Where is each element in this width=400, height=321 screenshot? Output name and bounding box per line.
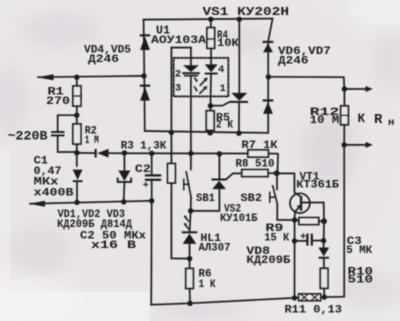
resistor R1 (73, 86, 81, 106)
wire: C1 branch left/down (58, 115, 77, 131)
svg-text:15 К: 15 К (264, 232, 289, 244)
terminal arrow: output bottom (344, 144, 366, 146)
node: R5 bottom on rail132 (208, 130, 213, 135)
svg-text:КТ361Б: КТ361Б (296, 179, 339, 191)
U1 photothyristor (205, 64, 218, 74)
svg-text:КУ101Б: КУ101Б (220, 213, 258, 225)
svg-text:АОУ103А: АОУ103А (151, 35, 206, 47)
node: pin2 wire on rail132 (169, 130, 174, 135)
svg-text:КД209Б Д814Д: КД209Б Д814Д (57, 219, 132, 231)
transistor VT1 (290, 193, 310, 213)
terminal arrow: output top (344, 88, 366, 90)
wire: R7 right to corner down (268, 154, 278, 174)
U1 light arrows small (195, 78, 197, 90)
capacitor C2 (electrolytic) (145, 174, 161, 181)
wire: VT1 collector (302, 203, 324, 222)
wire: C2 column (151, 153, 153, 174)
svg-text:1 К: 1 К (199, 279, 216, 291)
svg-text:10 М: 10 М (310, 115, 340, 127)
node: bottom rail at C3 column (292, 295, 297, 300)
svg-text:Д246: Д246 (278, 56, 309, 68)
node: bottom rail at R6 (187, 301, 192, 306)
svg-text:К: К (358, 112, 366, 126)
LED HL1 (182, 231, 198, 244)
diode VD8 (319, 248, 330, 259)
svg-text:н: н (388, 117, 394, 129)
wire: U1 top hook (171, 47, 191, 49)
diode VD6 (263, 41, 274, 52)
wire: collector column down through VD8 (323, 221, 325, 247)
resistor R5 (209, 106, 211, 111)
wire: right bridge column VD6/VD7 (x=268) (268, 19, 272, 132)
resistor R10 (320, 268, 328, 288)
wire: bottom rail (151, 297, 344, 305)
node: rail202 at x77 (74, 200, 79, 205)
svg-text:КД209Б: КД209Б (246, 255, 290, 267)
node: y153 at SB1/LED column (188, 151, 193, 156)
resistor R8 (242, 170, 268, 177)
U1 light arrows big (200, 80, 206, 94)
svg-text:+: + (300, 231, 306, 243)
node: y153 wire at x77 (74, 150, 79, 155)
wire: left bridge column VD4/VD5 (x=144) (144, 20, 145, 131)
node: mains top at R1 (74, 75, 79, 80)
wire: SB1 top contact (190, 153, 192, 169)
node: top wire joins VD4 column (141, 73, 146, 78)
resistor R11 (wire shunt) (299, 294, 321, 301)
node: VD6/VD7 junction (266, 74, 271, 79)
node: bottom rail at R10 (322, 294, 327, 299)
svg-text:SB1: SB1 (196, 193, 215, 205)
wire: VS1 cathode down to rail132 (238, 103, 240, 133)
node: rail202 at x124 (121, 199, 126, 204)
node: C3 left (292, 238, 297, 243)
wire: VT1 base lead from R8 junction (277, 173, 301, 197)
svg-text:270: 270 (46, 96, 70, 108)
diode VD7 (263, 99, 274, 113)
svg-text:2: 2 (175, 69, 181, 81)
switch SB1 (186, 172, 191, 197)
node: R8 right junction (274, 170, 280, 176)
wire: U1 LED column (190, 48, 192, 66)
zener VD3 (118, 171, 130, 182)
svg-text:Д246: Д246 (88, 54, 119, 66)
svg-text:АЛ307: АЛ307 (199, 243, 231, 255)
svg-text:2 К: 2 К (216, 120, 233, 132)
diode VD5 (140, 85, 150, 101)
capacitor C3 (295, 240, 307, 242)
node: y153 at VS2 (217, 151, 222, 156)
svg-text:1 М: 1 М (85, 135, 99, 147)
wire: R8 right to junction (268, 172, 277, 174)
wire: mains bottom rail y202 (30, 201, 152, 204)
wire: SB2 bottom to R9 wire (277, 204, 299, 221)
diode VD1 (horizontal, pointing left) (95, 149, 109, 158)
wire: R3 bottom to HL1 junction (171, 183, 189, 259)
U1 LED (182, 65, 200, 76)
svg-text:5 МК: 5 МК (346, 245, 372, 257)
wire: U1 pin2 lead down to rail132 (170, 48, 172, 133)
node: R9 right / VT1 collector (321, 218, 327, 224)
wire: VD3 column (123, 153, 125, 170)
wire: R4 top lead (210, 20, 212, 28)
optocoupler U1 dashed body (174, 58, 229, 97)
svg-text:SB2: SB2 (241, 193, 263, 205)
svg-text:х16 В: х16 В (91, 240, 137, 252)
wire: C1 bottom to junction (58, 136, 77, 152)
wire: R1/R2 column top lead (76, 77, 78, 86)
svg-text:VS1 КУ202Н: VS1 КУ202Н (203, 6, 290, 19)
node: HL1/R3/R6 junction (187, 256, 192, 261)
node: C3 right (321, 238, 326, 243)
HL1 emission arrows (185, 217, 188, 229)
switch SB2 (273, 186, 278, 204)
wire: to R12 (343, 89, 345, 106)
node: VS1 bottom on rail132 (236, 131, 241, 136)
wire: y153 horizontal (VD1 row) (77, 152, 95, 154)
node: R1-R2-C1 junction (74, 113, 79, 118)
svg-text:R3 1,3К: R3 1,3К (121, 141, 167, 153)
svg-text:3: 3 (175, 83, 181, 95)
svg-text:R: R (374, 112, 383, 128)
wire: VS2 cathode up to y153 (218, 154, 220, 179)
svg-text:~220В: ~220В (8, 130, 49, 144)
node: R5/gate junction (208, 103, 213, 108)
wire: top rail (144, 19, 273, 20)
node: C2 column joins rail202 (149, 198, 154, 203)
svg-text:+: + (143, 180, 149, 192)
terminal arrow: mains top (37, 74, 54, 80)
svg-text:х400В: х400В (34, 188, 74, 200)
svg-text:R11 0,13: R11 0,13 (285, 305, 343, 317)
node: top rail at R4 (208, 17, 213, 22)
svg-text:510: 510 (348, 275, 374, 287)
capacitor C1 (51, 131, 65, 136)
wire: C2 bottom to rail202 node and down to bottom rail (150, 181, 153, 305)
wire: R12 column down to bottom rail (343, 145, 345, 297)
terminal arrow: mains bottom (29, 201, 45, 207)
wire: SB2 top contact (276, 173, 278, 189)
wire: R4 to photothyristor (210, 48, 212, 64)
wire: VS2 gate to R8 (226, 173, 242, 179)
wire: LED cathode down to y153 (190, 77, 192, 154)
thyristor VS1 (230, 93, 248, 103)
svg-text:R8 510: R8 510 (236, 158, 275, 170)
node: output arrow 1 junction (342, 86, 347, 91)
resistor R7 (248, 150, 268, 157)
node: y153 wire at x124 (122, 150, 127, 155)
wire: R1 to R2 (76, 106, 78, 124)
svg-text:4: 4 (218, 64, 224, 76)
wire: R2 bottom lead (76, 144, 78, 166)
wire: VD6 junction to R12 column (268, 77, 344, 89)
diode VD4 (140, 34, 150, 50)
wire: VD2 bottom lead (76, 182, 78, 202)
wire: R12 bottom (343, 125, 345, 145)
node: R9 left / VT1 emitter (292, 217, 297, 222)
thyristor VS2 (212, 179, 227, 190)
wire: VT1 emitter (295, 206, 301, 220)
resistor R4 (207, 28, 215, 49)
svg-text:R7 1К: R7 1К (242, 140, 278, 152)
wire: rail y132 (bridge bottom) (145, 131, 268, 133)
diode VD2 (x=77 pointing down) (73, 170, 83, 182)
wire: R9 right to junction (319, 220, 324, 222)
resistor R2 (73, 124, 81, 144)
resistor R12 (341, 106, 349, 125)
node: top rail at VS1 (237, 17, 242, 22)
wire: photothyristor cathode down (210, 75, 213, 106)
wire: VD8 to R10 (323, 259, 325, 269)
node: output arrow 2 junction (342, 142, 347, 147)
resistor R9 (299, 218, 319, 225)
wire: HL1 to R3 junction (189, 244, 191, 259)
wire: VD3 bottom lead (123, 182, 126, 202)
svg-text:10К: 10К (217, 38, 239, 50)
wire: R10 bottom lead (323, 288, 325, 297)
resistor R6 (189, 259, 191, 269)
resistor R3 (170, 132, 172, 163)
wire: mains top line (38, 76, 144, 77)
svg-text:С2: С2 (135, 164, 151, 176)
wire: SB1 bottom contact (190, 197, 192, 211)
wire: SB1 to VS2 bottom (191, 189, 220, 211)
wire: VS1 column (238, 19, 240, 93)
svg-text:1: 1 (220, 83, 226, 95)
wire: gate to VS1 (211, 102, 230, 106)
node: SB1-VS2 wire junction (188, 208, 193, 213)
wire: R6 column (HL1 branch) (190, 211, 191, 232)
wire: C3 left column down to bottom rail (294, 220, 296, 298)
